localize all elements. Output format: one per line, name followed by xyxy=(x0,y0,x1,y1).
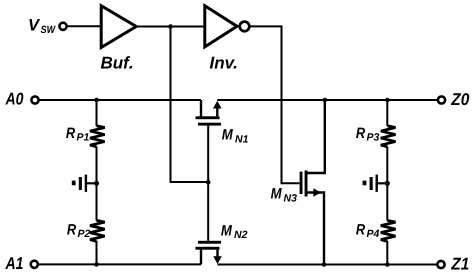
svg-text:SW: SW xyxy=(41,24,56,36)
buffer U1 (Buf.) xyxy=(101,6,137,73)
svg-text:N3: N3 xyxy=(284,192,298,204)
svg-text:R: R xyxy=(67,221,76,238)
terminal Z0 xyxy=(438,90,470,109)
wire A1 right segment to Z1 xyxy=(218,264,438,266)
wire buffer output to inverter input xyxy=(136,26,205,28)
C1 right plate xyxy=(85,175,87,192)
C1 ground stub xyxy=(72,181,76,186)
resistor R_P1 xyxy=(66,125,105,147)
svg-text:P3: P3 xyxy=(367,132,380,144)
wire R_P3 bottom to cap node to R_P4 top xyxy=(386,146,388,220)
wire A1 left segment xyxy=(39,263,202,265)
C1 lead from node xyxy=(87,182,97,184)
svg-text:R: R xyxy=(66,125,75,142)
svg-text:A0: A0 xyxy=(5,89,24,108)
junction dot A1 / M_N3 source xyxy=(322,262,327,267)
C2 ground stub xyxy=(363,181,367,186)
inverter U2 (Inv.) xyxy=(205,6,250,73)
svg-text:M: M xyxy=(221,222,232,239)
terminal A1 xyxy=(5,254,38,273)
junction dot Z1 / R_P4 xyxy=(385,262,390,267)
svg-text:Z0: Z0 xyxy=(450,90,469,109)
svg-text:R: R xyxy=(356,125,365,142)
wire R_P3 top lead xyxy=(386,100,388,126)
svg-text:P2: P2 xyxy=(78,228,91,240)
C2 right plate xyxy=(376,175,378,192)
svg-text:N2: N2 xyxy=(234,229,248,241)
C2 left (grounded) plate xyxy=(370,177,373,190)
svg-text:A1: A1 xyxy=(5,254,24,273)
transistor M_N2 (series NMOS in A1 line) xyxy=(196,182,248,264)
wire buffer node down then right to gate bus xyxy=(171,27,209,183)
capacitor C1 to ground (left) xyxy=(72,175,97,192)
svg-text:R: R xyxy=(356,221,365,238)
junction dot gate bus node xyxy=(206,180,211,185)
terminal Z1 xyxy=(437,254,469,273)
junction dot A1 / R_P2 xyxy=(94,262,99,267)
svg-text:M: M xyxy=(271,186,282,203)
svg-text:Buf.: Buf. xyxy=(101,53,134,72)
resistor R_P3 xyxy=(356,125,396,147)
junction dot cap node left xyxy=(94,181,99,186)
svg-text:Z1: Z1 xyxy=(450,254,469,273)
svg-text:N1: N1 xyxy=(235,134,249,146)
capacitor C2 to ground (right) xyxy=(363,175,388,192)
terminal A0 xyxy=(5,89,39,108)
wire R_P1 top lead xyxy=(96,100,98,126)
C1 left (grounded) plate xyxy=(79,177,82,190)
junction dot Z0 / R_P3 xyxy=(385,98,390,103)
wire A0 right segment to Z0 xyxy=(217,99,437,101)
junction dot A0 / M_N3 drain xyxy=(323,98,328,103)
svg-text:P1: P1 xyxy=(77,132,90,144)
wire R_P1 bottom to cap node to R_P2 top xyxy=(96,146,98,220)
junction dot A0 / R_P1 xyxy=(94,98,99,103)
wire V_SW to buffer input xyxy=(67,25,101,27)
junction dot cap node right xyxy=(385,181,390,186)
wire A0 left segment xyxy=(39,99,201,101)
junction dot at buffer output node xyxy=(168,24,173,29)
transistor M_N1 (series NMOS in A0 line) xyxy=(196,100,249,182)
resistor R_P2 xyxy=(67,220,105,241)
wire R_P4 bottom lead xyxy=(386,241,388,265)
svg-text:Inv.: Inv. xyxy=(210,54,238,73)
svg-text:M: M xyxy=(222,127,233,144)
wire inverter output right then down to M_N3 gate xyxy=(249,26,299,183)
resistor R_P4 xyxy=(356,220,396,241)
svg-text:P4: P4 xyxy=(367,228,380,240)
svg-text:V: V xyxy=(28,16,41,34)
wire R_P2 bottom lead xyxy=(96,241,98,264)
C2 lead from node xyxy=(378,182,388,184)
transistor M_N3 (shunt NMOS between Z0 and Z1) xyxy=(271,100,325,265)
terminal V_SW xyxy=(28,16,67,36)
